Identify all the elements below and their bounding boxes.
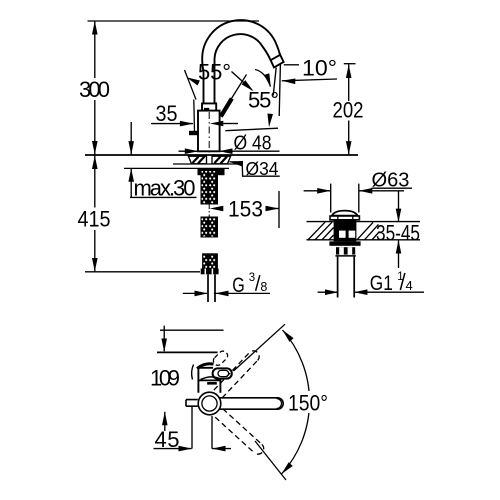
svg-text:35-45: 35-45 (376, 220, 420, 245)
svg-text:G1: G1 (370, 272, 393, 295)
svg-text:415: 415 (78, 207, 111, 232)
svg-text:150°: 150° (288, 391, 328, 416)
svg-text:10°: 10° (302, 56, 337, 81)
svg-text:202: 202 (333, 97, 364, 122)
svg-text:3: 3 (249, 272, 255, 284)
svg-text:300: 300 (79, 77, 110, 102)
svg-text:55°: 55° (198, 60, 231, 85)
svg-text:55°: 55° (248, 88, 279, 113)
svg-text:8: 8 (260, 280, 267, 294)
svg-text:Ø 48: Ø 48 (234, 132, 272, 154)
svg-text:35: 35 (156, 101, 178, 126)
svg-text:153: 153 (228, 197, 263, 222)
svg-text:Ø34: Ø34 (246, 159, 279, 179)
svg-text:max.30: max.30 (134, 175, 196, 200)
svg-text:4: 4 (406, 278, 413, 293)
svg-text:G: G (232, 274, 245, 297)
svg-text:109: 109 (150, 366, 180, 391)
